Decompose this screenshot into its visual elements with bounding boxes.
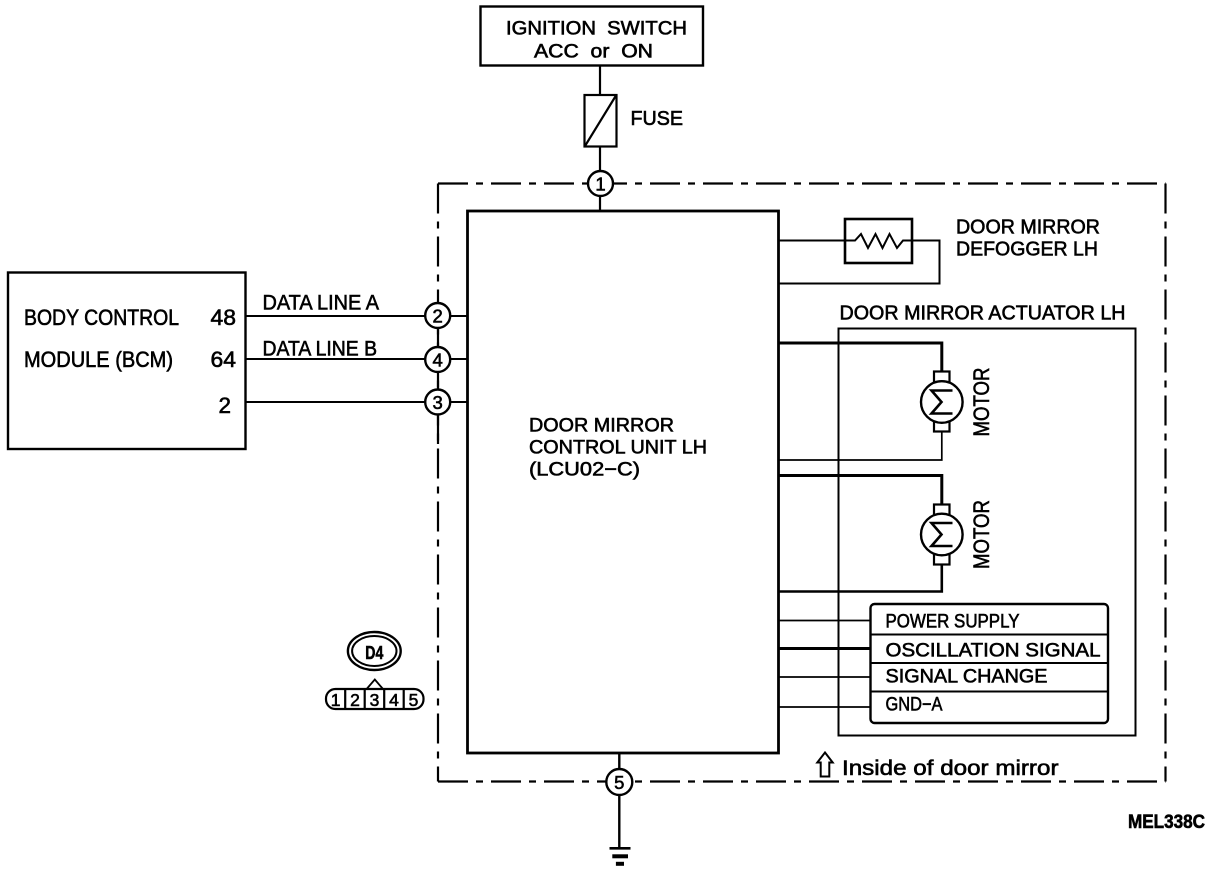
svg-text:5: 5 [409, 690, 419, 710]
svg-text:D4: D4 [365, 643, 383, 663]
wire node1 to control unit [599, 184, 601, 212]
node 2 (connector pin 2) [425, 303, 450, 328]
ignition switch box [481, 7, 704, 66]
wire control unit to motor M2 (thick) [779, 476, 942, 505]
svg-text:FUSE: FUSE [631, 108, 684, 130]
connector D4 [348, 632, 401, 670]
node 1 (connector pin 1) [588, 171, 613, 196]
svg-text:GND−A: GND−A [886, 694, 943, 716]
wire DATA LINE B (BCM 64 to node 4 to control unit) [246, 358, 468, 360]
wire motor M2 to control unit (thick) [779, 565, 942, 592]
svg-text:OSCILLATION SIGNAL: OSCILLATION SIGNAL [886, 640, 1101, 662]
svg-text:POWER SUPPLY: POWER SUPPLY [886, 611, 1020, 633]
svg-text:1: 1 [595, 174, 605, 195]
wire DATA LINE A (BCM 48 to node 2 to control unit) [246, 315, 468, 317]
wire control unit to GND-A [779, 706, 871, 708]
wire ignition switch to fuse [599, 66, 601, 96]
svg-text:DOOR MIRROR: DOOR MIRROR [529, 415, 674, 437]
svg-text:MEL338C: MEL338C [1128, 812, 1205, 833]
svg-text:SIGNAL CHANGE: SIGNAL CHANGE [886, 666, 1048, 688]
svg-text:Inside of door mirror: Inside of door mirror [842, 757, 1059, 780]
svg-text:64: 64 [211, 347, 237, 372]
resistor (door mirror defogger LH) [845, 219, 912, 263]
motor M2 [921, 505, 963, 565]
wire control unit to motor M1 (thick) [779, 343, 942, 372]
svg-text:2: 2 [219, 393, 232, 418]
svg-text:3: 3 [370, 690, 380, 710]
connector D4 pin strip [326, 680, 424, 711]
svg-text:DOOR MIRROR ACTUATOR LH: DOOR MIRROR ACTUATOR LH [840, 303, 1126, 325]
wire segment joining nodes 2,4,3 on border [437, 302, 439, 444]
body control module (BCM) box [8, 273, 246, 450]
svg-text:DEFOGGER LH: DEFOGGER LH [956, 239, 1098, 261]
node 5 (connector pin 5) [606, 769, 632, 795]
wire defogger resistor to control unit (return) [779, 241, 940, 284]
node 3 (connector pin 3) [425, 390, 450, 415]
ground [610, 848, 631, 864]
svg-text:4: 4 [389, 690, 399, 710]
wire fuse to node 1 [599, 147, 601, 173]
svg-text:1: 1 [331, 690, 341, 710]
wire node 5 to ground [618, 795, 620, 848]
door mirror control unit U1 [468, 211, 779, 753]
svg-text:DATA LINE B: DATA LINE B [263, 338, 378, 361]
svg-text:DATA LINE A: DATA LINE A [263, 292, 380, 315]
svg-text:DOOR MIRROR: DOOR MIRROR [956, 217, 1100, 239]
wire control unit to SIGNAL CHANGE [779, 676, 871, 678]
dash-dot border (inside of door mirror boundary) [438, 184, 1166, 782]
signal table box [871, 604, 1109, 723]
door mirror actuator LH box [839, 329, 1136, 736]
svg-text:(LCU02−C): (LCU02−C) [529, 459, 640, 481]
svg-text:MOTOR: MOTOR [969, 500, 994, 569]
svg-text:MOTOR: MOTOR [969, 368, 994, 437]
motor M1 [921, 372, 963, 432]
wire motor M1 to control unit [779, 432, 942, 461]
svg-text:IGNITION SWITCH: IGNITION SWITCH [506, 19, 687, 40]
svg-text:4: 4 [433, 350, 443, 371]
wire control unit to node 5 [618, 753, 620, 770]
arrow up [817, 753, 832, 777]
wire control unit to POWER SUPPLY [779, 620, 871, 622]
svg-text:ACC or ON: ACC or ON [534, 42, 653, 63]
svg-text:3: 3 [433, 392, 443, 413]
svg-text:48: 48 [211, 305, 237, 330]
svg-text:5: 5 [614, 772, 624, 793]
fuse F [585, 95, 617, 147]
node 4 (connector pin 4) [425, 347, 450, 372]
svg-text:2: 2 [433, 306, 443, 327]
svg-text:2: 2 [350, 690, 360, 710]
wire BCM 2 to node 3 to control unit [246, 401, 468, 403]
svg-text:CONTROL UNIT LH: CONTROL UNIT LH [529, 437, 707, 459]
wire control unit to defogger resistor [779, 240, 856, 242]
wire control unit to OSCILLATION SIGNAL (thick) [779, 647, 871, 650]
svg-text:MODULE (BCM): MODULE (BCM) [24, 347, 173, 372]
label Inside of door mirror [817, 753, 1058, 781]
svg-text:BODY CONTROL: BODY CONTROL [24, 305, 179, 330]
